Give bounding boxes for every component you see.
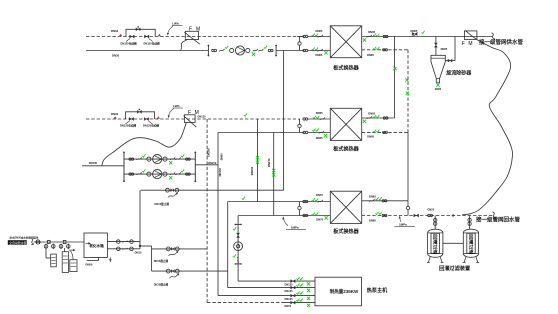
wire: riser x274	[273, 133, 275, 216]
label DN30 train1 return	[111, 29, 119, 33]
green check condenser pump	[233, 254, 236, 257]
svg-text:LWh: LWh	[173, 104, 180, 108]
union HX1 top-left	[303, 35, 308, 37]
valve on bypass top	[136, 26, 140, 31]
flange train1 left	[208, 45, 210, 57]
green check condenser pump top	[233, 227, 236, 230]
wire: return header train2 (dashed)	[86, 118, 300, 120]
svg-text:DN15: DN15	[135, 250, 142, 254]
green X HX3 bottom-left	[325, 216, 328, 219]
label DN150 riser x218	[218, 168, 222, 177]
union HX2 top-right	[383, 117, 388, 119]
pipe break S return	[493, 212, 496, 219]
label makeup source	[9, 236, 39, 240]
svg-text:DN125电动阀: DN125电动阀	[121, 41, 138, 45]
valve HP port3	[291, 294, 296, 297]
green X desander drain	[436, 83, 439, 86]
pump P1 assembly train1	[212, 46, 273, 56]
wire: HX3 hot return header	[238, 215, 330, 217]
svg-text:板式换热器: 板式换热器	[333, 228, 359, 235]
label makeup A	[154, 259, 169, 263]
svg-text:DN150: DN150	[250, 166, 254, 175]
bypass loop train2	[126, 112, 155, 119]
motor valve V2 train1	[144, 35, 152, 42]
svg-text:DN65: DN65	[316, 111, 323, 115]
label makeup B	[154, 283, 169, 287]
green checks HX1 bottom-right	[373, 47, 379, 50]
label HP port4	[285, 304, 292, 308]
wire: makeup branch B	[152, 270, 228, 272]
label valve2 train2	[143, 123, 160, 127]
svg-text:DN150: DN150	[208, 161, 217, 165]
motor valve V1 train1	[126, 35, 134, 42]
reinjection filter tank 1	[427, 229, 444, 262]
green checks HX1 top-left	[312, 34, 318, 37]
valve desander outlet	[448, 59, 452, 62]
label DN25 desander	[441, 47, 448, 51]
wire HX1 bottom-left	[308, 50, 331, 52]
green checks HX3 top-right	[376, 197, 382, 200]
motor valve V2 train2	[144, 117, 152, 124]
label riser x257	[250, 166, 254, 175]
green X HX2 right	[363, 120, 366, 123]
label 1MPa right	[395, 216, 415, 226]
label: to primary network return	[476, 215, 521, 223]
filter tank 1 text	[431, 233, 439, 255]
valve desander feed	[434, 43, 437, 47]
union HX1 bottom-left	[303, 49, 308, 51]
check condenser pump	[237, 257, 239, 262]
wire: HP port3 line	[218, 295, 315, 297]
dosing unit 2 drops	[59, 244, 70, 252]
label HX3 top-left	[316, 193, 323, 197]
wire: makeup jog to x151	[140, 246, 152, 271]
svg-text:DN65: DN65	[316, 29, 323, 33]
label DN65 HX1 top-left	[316, 29, 323, 33]
sensor tap2 train2 (red)	[157, 116, 160, 118]
green X pair riser x257	[256, 156, 259, 164]
svg-text:DN65: DN65	[316, 53, 323, 57]
pump P2 assembly	[129, 154, 190, 164]
wire: riser x408 lower	[407, 132, 409, 200]
label HP port2	[285, 289, 294, 293]
label DN150 suction	[89, 161, 98, 165]
label expansion tank	[89, 243, 104, 248]
svg-text:旋流除砂器: 旋流除砂器	[445, 70, 472, 77]
balance stub HX1 with gauge	[298, 37, 301, 51]
union return line	[428, 214, 433, 216]
svg-text:DN70: DN70	[316, 193, 323, 197]
softener tank 2	[62, 252, 68, 273]
check makeup A	[169, 251, 179, 256]
svg-text:DN65: DN65	[368, 111, 375, 115]
reinjection filter tank 2	[463, 229, 480, 262]
wire: supply header train1	[86, 50, 208, 52]
svg-text:1MPa: 1MPa	[291, 225, 299, 229]
wire: expansion branch lower	[107, 248, 140, 250]
wire HX2 top-left	[308, 118, 331, 120]
label DN65 riser x218	[220, 153, 224, 160]
dosing unit 2 head	[63, 240, 66, 243]
label heat pump capacity	[330, 288, 359, 295]
svg-text:DN65: DN65	[411, 29, 418, 33]
label HX1	[333, 65, 359, 72]
wire: riser x395 HX2 to supply main	[394, 37, 396, 119]
wire: riser x408 to return w/ gauge	[406, 201, 409, 216]
svg-text:DN150: DN150	[89, 161, 98, 165]
svg-text:DN30: DN30	[111, 112, 119, 116]
green check train2 dashed	[244, 113, 247, 116]
label DN150 riser x207	[207, 148, 211, 157]
expansion branch lower fittings	[117, 247, 134, 251]
wire: makeup branch A	[152, 248, 208, 250]
wire: riser x257	[257, 119, 259, 202]
label DN50 drain	[86, 262, 93, 266]
green X HP port1	[307, 282, 310, 285]
pump P3 assembly	[129, 169, 190, 179]
label DN65 HX2 top-left	[316, 111, 323, 115]
label filters	[439, 264, 470, 272]
svg-text:回灌过滤: 回灌过滤	[433, 233, 438, 255]
wire: desander outlet	[445, 37, 455, 61]
filter feed stub 2	[468, 216, 471, 230]
union HX3 bottom-left	[303, 214, 308, 216]
wire: pump discharge to riser x218	[195, 164, 218, 166]
valve HP port2	[291, 286, 296, 289]
valve HP port4	[291, 301, 296, 304]
green X HX1 bottom-left	[324, 51, 327, 54]
svg-text:DN125电动阀: DN125电动阀	[144, 41, 161, 45]
filter tank 2 text	[467, 233, 475, 255]
svg-text:DN25: DN25	[441, 47, 448, 51]
green X HX2 bottom-left	[324, 134, 327, 137]
valve pair makeup B	[166, 269, 179, 273]
green checks HX3 top-left	[312, 199, 318, 202]
svg-text:DN125电动阀: DN125电动阀	[120, 123, 137, 127]
wire pump branch B	[124, 173, 195, 175]
flow meter FM1	[184, 31, 199, 44]
svg-text:DN25: DN25	[428, 207, 435, 211]
label FM1	[189, 27, 202, 33]
svg-text:LWh: LWh	[172, 22, 179, 26]
green X HP port2	[307, 289, 310, 292]
label FM2	[188, 110, 200, 116]
union HX1 bottom-right	[383, 49, 388, 51]
union HX2 bottom-right	[383, 131, 388, 133]
valve pair makeup C	[166, 188, 179, 192]
green X riser x395	[393, 67, 396, 70]
pipe break S makeup	[31, 239, 33, 245]
svg-text:1MPa: 1MPa	[399, 222, 407, 226]
wire: HX2 supply line from riser	[218, 132, 304, 134]
svg-text:DN65: DN65	[367, 53, 374, 57]
label FM3	[462, 41, 474, 47]
valve HX3 top-right	[369, 199, 374, 202]
svg-text:板式换热器: 板式换热器	[333, 145, 359, 152]
cyclone desander	[431, 55, 445, 83]
flange train1 right	[275, 45, 277, 57]
valve secondary supply	[412, 32, 417, 36]
green check secondary supply	[422, 31, 425, 34]
wire: makeup riser x140	[139, 190, 141, 249]
valve pair makeup A	[166, 247, 179, 251]
svg-text:DN50: DN50	[86, 262, 93, 266]
wire: desander feed drop	[435, 37, 437, 56]
flange condenser pump	[235, 224, 242, 226]
label DN30 train2	[111, 112, 119, 116]
svg-text:接一级管网回水管: 接一级管网回水管	[476, 215, 521, 223]
energy meter label LWh train1	[167, 22, 183, 36]
label DN65 HX1 bottom-left	[316, 53, 323, 57]
heat pump unit box	[315, 277, 362, 306]
pump header right	[194, 152, 196, 183]
union HX3 bottom-right	[382, 214, 387, 216]
green checks HP port2	[296, 284, 302, 287]
flow meter FM2	[184, 115, 197, 127]
wire HX3 top-right	[362, 200, 408, 202]
svg-text:DN15截止阀: DN15截止阀	[155, 202, 170, 206]
label valve1 train2	[120, 123, 137, 127]
valve makeup inlet	[36, 240, 40, 244]
wire: FM1 drop squiggle	[181, 40, 188, 51]
bypass loop train1	[126, 29, 155, 36]
check makeup B	[170, 273, 180, 278]
wire: filter crossover	[443, 242, 463, 244]
wire HX3 bottom-right (dashed return)	[362, 215, 493, 217]
svg-text:制热量235KW: 制热量235KW	[330, 288, 359, 295]
label DN15	[135, 250, 142, 254]
wire: HP port1 line	[238, 280, 315, 282]
svg-text:F M: F M	[189, 27, 202, 33]
label DN65 HX2 top-right	[368, 111, 375, 115]
label DN65 HX3 bottom-right	[369, 219, 376, 223]
svg-text:DN30: DN30	[112, 54, 120, 58]
green check HX3 header	[242, 197, 245, 200]
green checks HX2 top-right	[373, 115, 379, 118]
valve condenser pump	[237, 233, 240, 237]
expansion tank drain	[87, 258, 112, 263]
valve HP port1	[291, 280, 296, 283]
svg-text:F M: F M	[462, 41, 474, 47]
svg-text:DN65: DN65	[368, 30, 375, 34]
expansion tank arrow	[86, 242, 92, 244]
green checks HX1 top-right	[373, 34, 379, 37]
check makeup C	[168, 193, 178, 198]
label 1MPa mid	[282, 216, 306, 229]
sensor tap train2 (red)	[114, 116, 117, 118]
valve HX2 bottom-left	[319, 131, 324, 134]
label heat pump unit	[367, 287, 388, 294]
label DN65 HX2 bottom-right	[367, 135, 374, 139]
heat exchanger HX2	[330, 108, 361, 140]
arrow to salt tank	[69, 249, 76, 260]
wire: pump suction line train2	[82, 165, 124, 167]
dosing unit 1 head	[48, 240, 51, 243]
label valve2 train1	[144, 41, 161, 45]
dosing unit 1 drops	[44, 244, 55, 258]
wire HX2 bottom-right (dashed)	[362, 131, 408, 133]
label riser x274	[267, 158, 271, 167]
wire: flexible curve to return (right)	[462, 31, 512, 215]
softener tank 1	[51, 254, 57, 267]
valve HX2 top-right	[367, 116, 372, 119]
svg-text:软化水箱: 软化水箱	[89, 243, 104, 248]
svg-text:回灌过滤装置: 回灌过滤装置	[439, 264, 470, 272]
green X HP port3	[307, 297, 310, 300]
svg-text:DN25: DN25	[435, 88, 442, 91]
valve HX1 top-right	[367, 35, 372, 38]
label valve1 train1	[121, 41, 138, 45]
svg-text:DN150: DN150	[267, 158, 271, 167]
svg-text:DN150: DN150	[207, 148, 211, 157]
pump header left	[123, 152, 125, 183]
valve on bypass top train2	[137, 109, 141, 114]
green checks HX3 bottom-left	[312, 213, 318, 216]
svg-text:DN125: DN125	[285, 297, 294, 301]
svg-text:DN65: DN65	[369, 219, 376, 223]
green checks HX2 top-left	[313, 116, 319, 119]
flange condenser pump bottom	[235, 263, 242, 265]
green X pair riser x274	[272, 169, 275, 177]
valve HX1 bottom-left	[318, 49, 323, 52]
svg-text:DN125电动阀: DN125电动阀	[143, 123, 160, 127]
green checks HP port4	[296, 299, 302, 302]
heat exchanger HX1	[330, 26, 361, 58]
svg-text:DN65: DN65	[367, 135, 374, 139]
label DN25 desander drain	[435, 88, 442, 91]
wire: makeup line to riser x284	[141, 189, 284, 191]
green checks HX3 bottom-right	[376, 212, 382, 215]
green checks HX2 bottom-right	[373, 130, 379, 133]
wire pump branch A	[124, 158, 195, 160]
wire: dashed riser x408 upper	[407, 50, 409, 133]
union HX2 bottom-left	[303, 131, 308, 133]
condenser pump P4	[234, 242, 243, 251]
wire HX1 top-right	[362, 36, 395, 38]
svg-text:补水DN50由水处理间接来: 补水DN50由水处理间接来	[9, 236, 39, 240]
svg-text:DN150: DN150	[218, 168, 222, 177]
wire: HP port4 line (dashed)	[207, 301, 315, 302]
motor valve V1 train2	[125, 117, 133, 124]
svg-text:DN125: DN125	[285, 283, 294, 287]
svg-text:全自动软水器: 全自动软水器	[9, 240, 26, 245]
wire HX1 bottom-right (dashed)	[362, 49, 408, 51]
svg-text:DN15截止阀: DN15截止阀	[154, 259, 169, 263]
svg-text:板式换热器: 板式换热器	[333, 65, 359, 72]
svg-text:DN50: DN50	[285, 304, 292, 308]
label DN65 HX2 bottom-left	[316, 136, 323, 140]
wire: riser x207 (dashed)	[206, 119, 208, 301]
svg-text:DN65: DN65	[369, 194, 376, 198]
green checks HX2 bottom-left	[312, 129, 318, 132]
label DN65 HX3 top-right	[369, 194, 376, 198]
wire HX2 top-right	[362, 117, 395, 119]
wire: return header train1 (dashed)	[86, 36, 300, 38]
label makeup bold	[8, 240, 27, 245]
balance stub HX2 with gauge	[298, 119, 301, 133]
label HP port1	[285, 283, 294, 287]
label HX3	[333, 228, 359, 235]
flow meter FM3	[464, 31, 477, 40]
valve HX1 top-left	[318, 35, 323, 38]
balance stub HX3 with gauge	[298, 202, 301, 216]
wire HX1 top-left	[308, 36, 331, 38]
valve HX3 top-left	[318, 200, 323, 203]
sensor tap (red)	[119, 34, 122, 36]
junction dot return	[452, 214, 454, 216]
svg-text:DN125: DN125	[285, 289, 294, 293]
wire: condenser pump drop x238	[237, 216, 239, 282]
svg-text:DN30: DN30	[111, 29, 119, 33]
green X riser x408 upper	[405, 78, 408, 81]
svg-text:回灌过滤: 回灌过滤	[469, 233, 474, 255]
wire: HX3 hot supply header	[228, 201, 331, 203]
union HX1 top-right	[383, 35, 388, 37]
wire: riser x228 drop	[227, 202, 229, 288]
green checks HP port1	[296, 277, 302, 280]
label HP port3	[285, 297, 294, 301]
green checks HP port3	[296, 292, 302, 295]
valve HX2 top-left	[320, 117, 325, 120]
wire: flexible curve FM2 to pumps	[102, 123, 187, 166]
wire: riser x284 from supply1	[283, 51, 285, 191]
svg-text:热泵主机: 热泵主机	[367, 287, 388, 294]
label desander	[445, 70, 472, 77]
label DN65 secondary supply	[411, 29, 418, 33]
expansion branch upper fittings	[117, 240, 134, 244]
heat exchanger HX3	[330, 191, 361, 223]
label makeup C	[155, 202, 170, 206]
label DN65 HX1 top-right	[368, 30, 375, 34]
junction dot makeup	[139, 245, 141, 247]
valve return line	[414, 214, 419, 217]
label DN25 return	[428, 207, 435, 211]
filter feed stub 1	[434, 216, 437, 230]
label DN125 train2 dashed	[198, 115, 207, 119]
wire: riser x218	[217, 133, 219, 296]
union HX3 top-right	[382, 200, 387, 202]
wire: expansion branch upper	[107, 241, 140, 243]
label: to primary network supply	[479, 38, 524, 46]
wire: makeup inlet line	[34, 241, 85, 243]
label HX3 bottom-left	[316, 218, 323, 222]
wire: supply to HX1	[276, 50, 304, 52]
salt tank	[70, 260, 77, 272]
green X riser x408	[406, 92, 409, 95]
label HX2	[333, 145, 359, 152]
wire: secondary supply main	[395, 36, 493, 38]
energy meter label LWh train2	[168, 104, 183, 118]
svg-text:DN125: DN125	[198, 115, 207, 119]
svg-text:DN70: DN70	[316, 218, 323, 222]
label DN65 HX1 bottom-right	[367, 53, 374, 57]
label DN150 discharge	[208, 161, 217, 165]
wire: HP port2 line	[228, 287, 315, 289]
green X HP port4	[307, 304, 310, 307]
sensor tap 2 (red)	[158, 34, 161, 36]
union HX3 top-left	[303, 200, 308, 202]
pipe break S supply	[492, 33, 495, 40]
svg-text:DN65: DN65	[220, 153, 224, 160]
svg-text:DN65: DN65	[316, 136, 323, 140]
label DN30 supply train1	[112, 54, 120, 58]
green X HX1 right	[363, 38, 366, 41]
union HX2 top-left	[303, 118, 308, 120]
wire HX2 bottom-left	[308, 132, 331, 134]
green checks HX1 bottom-left	[312, 47, 318, 50]
svg-text:DN15截止阀: DN15截止阀	[154, 283, 169, 287]
expansion tank box	[84, 233, 107, 258]
